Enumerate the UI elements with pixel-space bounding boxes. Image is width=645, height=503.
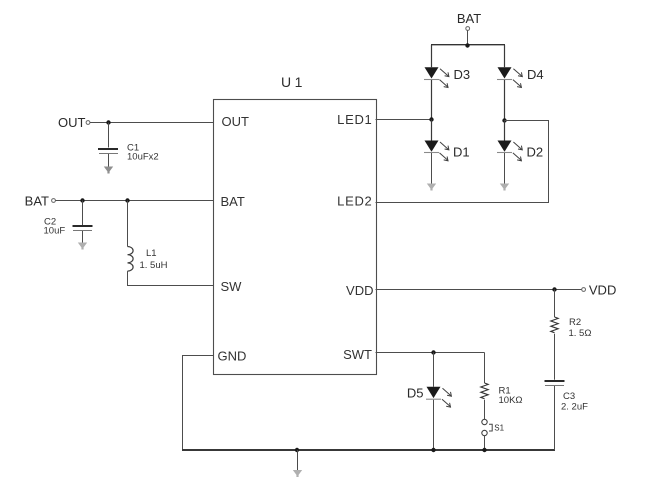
capacitor C2: [73, 226, 93, 231]
ground below D1: [427, 184, 436, 191]
svg-text:BAT: BAT: [457, 11, 481, 26]
value label C3 2.2uF: [561, 391, 588, 413]
op-amp U1 IC body: [214, 100, 377, 375]
value label C1 10uFx2: [127, 143, 159, 163]
svg-text:D3: D3: [454, 67, 471, 82]
svg-text:OUT: OUT: [58, 115, 86, 130]
node junction C2 tap on BAT wire: [80, 198, 84, 202]
svg-text:10uF: 10uF: [44, 226, 66, 237]
wire D1 cathode down: [431, 153, 433, 184]
wire L1 stem down from BAT wire: [127, 201, 129, 247]
wire U1 LED1 pin to bridge: [376, 119, 432, 121]
wire S1 to bottom rail: [484, 436, 486, 450]
wire L1 bottom to SW pin: [128, 271, 214, 285]
wire D3 cathode to LED1 node: [431, 80, 433, 120]
svg-text:U1: U1: [281, 74, 306, 90]
node junction D2 anode / LED2: [502, 118, 506, 122]
wire D5 cathode to bottom rail: [433, 400, 435, 450]
LED D1: [424, 141, 449, 161]
svg-text:L1: L1: [146, 248, 157, 259]
value label R2 1.5ohm: [569, 317, 592, 339]
node junction R2 tap on VDD wire: [552, 287, 556, 291]
svg-text:OUT: OUT: [222, 114, 250, 129]
wire LED1 node to D1 anode: [431, 120, 433, 141]
svg-text:D1: D1: [453, 145, 470, 160]
wire R1 branch down from SWT wire: [484, 353, 486, 384]
svg-text:VDD: VDD: [346, 283, 373, 298]
ground below C1: [104, 154, 113, 174]
svg-text:D4: D4: [527, 67, 544, 82]
wire C3 to bottom rail: [554, 386, 556, 450]
svg-text:BAT: BAT: [221, 194, 245, 209]
wire BAT terminal to U1 BAT pin: [56, 200, 214, 202]
switch S1: [482, 419, 492, 435]
LED D2: [497, 141, 522, 161]
svg-text:1. 5uH: 1. 5uH: [140, 260, 168, 271]
wire top rail of LED bridge: [431, 44, 505, 46]
resistor R2: [551, 317, 558, 333]
capacitor C1: [98, 149, 118, 154]
ground below C2: [78, 231, 87, 250]
svg-text:D2: D2: [527, 145, 544, 160]
wire D2 anode node to D2: [504, 121, 506, 141]
wire top rail to D3 anode: [431, 45, 433, 67]
LED D4: [497, 67, 522, 87]
terminal circle BAT left: [52, 199, 56, 203]
wire D2 cathode down: [504, 153, 506, 184]
wire OUT terminal to U1 OUT pin: [90, 122, 214, 124]
node junction D5 tap on SWT wire: [431, 350, 435, 354]
svg-text:VDD: VDD: [589, 283, 616, 298]
wire C2 stem down from BAT wire: [82, 201, 84, 226]
node junction S1 at bottom rail: [482, 448, 486, 452]
wire top rail to D4 anode: [504, 45, 506, 67]
svg-text:GND: GND: [218, 349, 247, 364]
terminal circle VDD: [582, 288, 586, 292]
node junction D5 at bottom rail: [431, 448, 435, 452]
svg-text:10KΩ: 10KΩ: [499, 395, 523, 406]
svg-text:S1: S1: [494, 424, 504, 433]
ground below D2: [500, 184, 509, 191]
value label L1 1.5uH: [140, 248, 168, 271]
wire U1 VDD pin to VDD terminal: [376, 289, 582, 291]
value label R1 10Kohm: [499, 386, 523, 407]
svg-text:C3: C3: [563, 391, 575, 402]
svg-text:2. 2uF: 2. 2uF: [561, 402, 588, 413]
wire VDD node down to R2: [554, 290, 556, 318]
terminal circle BAT top: [466, 27, 470, 31]
node junction LED1 / D1 anode: [429, 117, 433, 121]
svg-text:1. 5Ω: 1. 5Ω: [569, 328, 592, 339]
wire R1 to switch S1: [484, 400, 486, 420]
node junction L1 tap on BAT wire: [125, 198, 129, 202]
wire U1 SWT pin to R1 branch: [376, 352, 485, 354]
svg-text:LED2: LED2: [337, 194, 372, 209]
capacitor C3: [545, 381, 565, 386]
ground at bottom rail: [293, 450, 302, 477]
terminal circle OUT: [86, 121, 90, 125]
svg-text:10uFx2: 10uFx2: [127, 152, 159, 163]
wire BAT top stem: [467, 31, 469, 46]
wire bottom ground rail: [182, 449, 555, 451]
node junction C1 tap on OUT wire: [106, 120, 110, 124]
wire SWT node down to D5: [433, 353, 435, 387]
LED D5: [426, 387, 451, 407]
value label C2 10uF: [44, 217, 66, 237]
svg-text:SWT: SWT: [343, 347, 372, 362]
node junction BAT on top rail: [465, 43, 469, 47]
svg-text:R2: R2: [569, 317, 581, 328]
LED D3: [424, 67, 449, 87]
node junction ground tap on bottom rail: [295, 448, 299, 452]
svg-text:SW: SW: [221, 279, 243, 294]
svg-text:BAT: BAT: [25, 194, 49, 209]
resistor R1: [481, 383, 488, 399]
wire C1 stem down from OUT wire: [108, 123, 110, 148]
wire LED2 pin to D2 anode node (right loop): [376, 121, 549, 203]
inductor L1: [128, 247, 134, 272]
wire GND pin left and down to bottom rail: [183, 356, 214, 451]
svg-text:D5: D5: [407, 386, 424, 401]
wire R2 to C3: [554, 334, 556, 380]
svg-text:LED1: LED1: [337, 112, 372, 127]
wire D4 cathode to D2 anode node: [504, 80, 506, 121]
